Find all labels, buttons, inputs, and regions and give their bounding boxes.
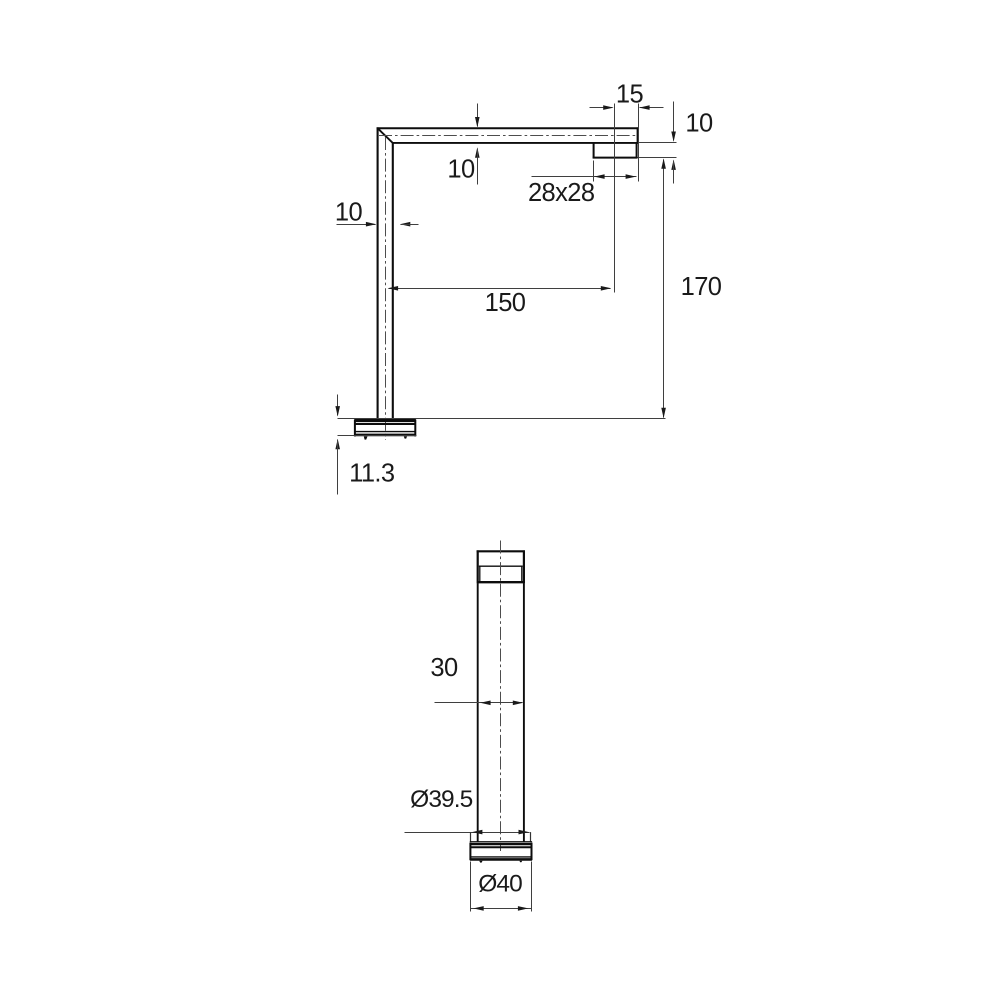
base flange view1 upper thick band [354, 419, 415, 422]
column left edge [477, 583, 479, 842]
svg-text:150: 150 [485, 289, 526, 317]
dim d39.5 leader line [405, 832, 530, 834]
spout tube bottom edge [393, 142, 638, 144]
dim 10 column left witness line [337, 224, 376, 226]
dim d39.5 left arrowhead [472, 830, 482, 835]
corner mitre line [378, 129, 393, 144]
base flange view1 inner bottom line [356, 431, 415, 433]
cap top edge [477, 550, 525, 552]
column right edge [523, 583, 525, 842]
base flange view2 upper thick band [470, 843, 532, 845]
cap separation line [479, 565, 523, 567]
svg-text:10: 10 [335, 198, 363, 226]
svg-text:10: 10 [685, 109, 713, 137]
dim 10 column right witness line [401, 224, 419, 226]
svg-text:10: 10 [447, 155, 475, 183]
dim 10 outlet lower arrowhead [671, 160, 676, 170]
base bottom datum line [338, 435, 417, 437]
spout outlet block bottom edge [593, 157, 638, 159]
dim 30 left arrowhead [480, 701, 490, 706]
dim 15 left arrowhead [603, 105, 613, 110]
dim 10 column right arrowhead [400, 222, 410, 227]
dim 170 line [663, 160, 665, 418]
neck left edge [470, 832, 472, 842]
dim 28x28 right arrowhead [626, 174, 636, 179]
dim 11.3 upper arrowhead [335, 406, 340, 416]
dim d40 left extension line [470, 862, 472, 912]
dim 11.3 lower witness line [337, 440, 339, 495]
column centerline [500, 541, 502, 852]
dim 150 left arrowhead [388, 286, 398, 291]
svg-text:11.3: 11.3 [349, 460, 395, 488]
base flange view2 right edge [531, 843, 533, 860]
extension line tube end [638, 104, 640, 182]
horizontal centerline [379, 135, 637, 137]
base flange view2 inner bottom line [471, 856, 531, 858]
collar band right inner edge [521, 566, 523, 581]
dim 170 upper arrowhead [661, 158, 666, 168]
svg-text:28x28: 28x28 [528, 179, 595, 207]
base flange view1 right edge [414, 420, 416, 437]
tube left outer edge [377, 127, 379, 419]
extension tube bottom right [639, 142, 677, 144]
dim d39.5 right arrowhead [519, 830, 529, 835]
dim 150 right arrowhead [601, 286, 611, 291]
dim 30 line [435, 702, 523, 704]
dim 30 right arrowhead [513, 701, 523, 706]
dim 15 line left segment [590, 107, 613, 109]
extension line spout left [593, 161, 595, 182]
base flange view2 second band [470, 846, 531, 848]
base flange view1 left foot nub [364, 436, 368, 439]
dim 10 column left arrowhead [366, 222, 376, 227]
dim 10 wall lower witness line [477, 149, 479, 185]
vertical centerline [385, 137, 387, 440]
svg-text:30: 30 [430, 654, 458, 682]
dim 170 lower arrowhead [661, 408, 666, 418]
svg-text:170: 170 [681, 273, 722, 301]
cap left edge [477, 550, 479, 583]
tube right end cap [637, 127, 639, 143]
base flange view2 left foot nub [479, 861, 482, 863]
base flange view1 right foot nub [404, 436, 407, 438]
dim 28x28 line [532, 176, 637, 178]
base flange view2 top thin line [470, 841, 532, 843]
dim 150 line [389, 288, 611, 290]
mounting datum line [338, 418, 666, 420]
dim d40 line [471, 908, 532, 910]
dim d40 right arrowhead [518, 906, 528, 911]
dim 15 line right segment [640, 107, 664, 109]
extension line spout centerline [614, 104, 616, 293]
cap right edge [523, 550, 525, 583]
base flange view1 top thin line [354, 418, 415, 420]
dim 10 outlet lower witness line [673, 161, 675, 184]
extension outlet bottom right [638, 157, 677, 159]
collar band left inner edge [479, 566, 481, 581]
base flange view1 second band [355, 423, 415, 425]
dim d40 left arrowhead [473, 906, 483, 911]
dim 11.3 lower arrowhead [335, 439, 340, 449]
neck right edge [530, 832, 532, 842]
base flange view1 bottom thick band [354, 434, 415, 437]
spout tube top edge [377, 127, 639, 129]
svg-text:Ø40: Ø40 [478, 870, 522, 897]
base flange view1 left edge [354, 420, 356, 437]
dim 15 right arrowhead [639, 105, 649, 110]
svg-text:Ø39.5: Ø39.5 [410, 786, 473, 813]
base flange view2 bottom thick band [470, 858, 532, 861]
dim 10 wall upper arrowhead [475, 117, 480, 127]
spout outlet block left edge [593, 143, 595, 159]
spout outlet block right edge [636, 143, 638, 159]
dim 11.3 upper witness line [337, 395, 339, 416]
dim 10 wall lower arrowhead [475, 147, 480, 157]
base flange view2 right foot nub [519, 861, 522, 863]
dim 10 outlet upper witness line [673, 102, 675, 141]
dim 10 outlet upper arrowhead [671, 132, 676, 142]
dim d40 right extension line [531, 862, 533, 912]
dim 10 wall upper witness line [477, 104, 479, 127]
collar band bottom thick edge [477, 581, 524, 583]
dim 28x28 left arrowhead [594, 174, 604, 179]
tube inner right edge [392, 143, 394, 419]
svg-text:15: 15 [616, 81, 644, 109]
base flange view2 left edge [469, 843, 471, 860]
